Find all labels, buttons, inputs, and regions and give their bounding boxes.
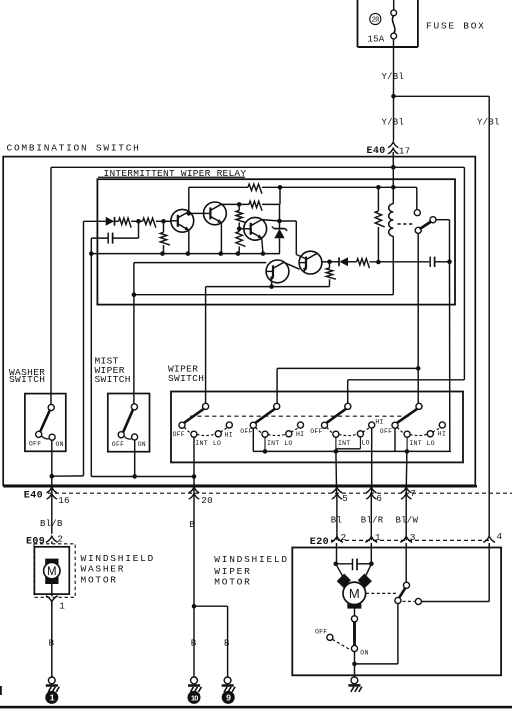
svg-text:15A: 15A: [368, 35, 385, 45]
svg-text:LO: LO: [362, 440, 370, 447]
svg-text:HI: HI: [438, 430, 446, 437]
svg-text:OFF: OFF: [315, 628, 327, 635]
svg-text:6: 6: [376, 493, 382, 504]
svg-text:5: 5: [342, 493, 348, 504]
svg-text:2: 2: [57, 534, 63, 545]
svg-text:SWITCH: SWITCH: [9, 374, 45, 385]
svg-text:LO: LO: [213, 440, 221, 447]
svg-text:E20: E20: [310, 537, 329, 548]
svg-text:B: B: [49, 638, 55, 648]
svg-text:INT: INT: [195, 440, 207, 447]
svg-text:INT: INT: [338, 440, 350, 447]
svg-text:3: 3: [410, 532, 416, 543]
svg-text:LO: LO: [284, 440, 292, 447]
svg-text:WINDSHIELD: WINDSHIELD: [214, 554, 289, 565]
svg-text:Y/Bl: Y/Bl: [382, 118, 405, 128]
svg-text:INT: INT: [409, 440, 421, 447]
svg-text:OFF: OFF: [380, 428, 392, 435]
svg-text:B: B: [224, 638, 230, 648]
svg-text:Bl/W: Bl/W: [396, 516, 419, 526]
svg-text:4: 4: [497, 531, 503, 542]
svg-text:20: 20: [201, 495, 213, 506]
svg-text:WINDSHIELD: WINDSHIELD: [81, 553, 156, 564]
svg-text:FUSE BOX: FUSE BOX: [426, 20, 486, 31]
svg-text:ON: ON: [360, 649, 368, 656]
svg-text:HI: HI: [296, 431, 304, 438]
svg-text:7: 7: [410, 488, 416, 499]
svg-text:E40: E40: [367, 146, 386, 157]
svg-text:MOTOR: MOTOR: [214, 576, 251, 587]
svg-text:M: M: [47, 566, 57, 578]
svg-text:ON: ON: [138, 441, 146, 448]
svg-text:2: 2: [341, 532, 347, 543]
svg-text:17: 17: [399, 145, 411, 156]
svg-text:10: 10: [191, 694, 198, 703]
svg-text:HI: HI: [225, 431, 233, 438]
svg-text:1: 1: [59, 600, 65, 611]
svg-text:20: 20: [372, 16, 380, 24]
svg-text:Y/Bl: Y/Bl: [382, 72, 405, 82]
svg-text:COMBINATION SWITCH: COMBINATION SWITCH: [7, 143, 141, 154]
svg-text:Bl/R: Bl/R: [361, 516, 384, 526]
svg-text:Bl/B: Bl/B: [40, 519, 63, 529]
svg-text:1: 1: [375, 532, 381, 543]
svg-text:B: B: [189, 520, 195, 530]
svg-text:E40: E40: [24, 491, 43, 502]
svg-text:INT: INT: [267, 440, 279, 447]
svg-text:Y/Bl: Y/Bl: [477, 118, 500, 128]
svg-text:Bl: Bl: [331, 516, 342, 526]
svg-text:M: M: [349, 586, 360, 601]
svg-text:OFF: OFF: [112, 441, 124, 448]
svg-text:OFF: OFF: [29, 441, 41, 448]
svg-text:16: 16: [58, 495, 70, 506]
svg-text:SWITCH: SWITCH: [168, 373, 204, 384]
svg-text:LO: LO: [427, 440, 435, 447]
svg-text:ON: ON: [56, 441, 64, 448]
svg-text:OFF: OFF: [240, 428, 252, 435]
svg-text:MOTOR: MOTOR: [81, 575, 118, 586]
svg-text:OFF: OFF: [173, 431, 185, 438]
svg-text:B: B: [191, 638, 197, 648]
svg-text:OFF: OFF: [310, 428, 322, 435]
svg-text:WASHER: WASHER: [81, 563, 126, 574]
svg-text:HI: HI: [375, 419, 383, 426]
svg-text:SWITCH: SWITCH: [95, 374, 131, 385]
